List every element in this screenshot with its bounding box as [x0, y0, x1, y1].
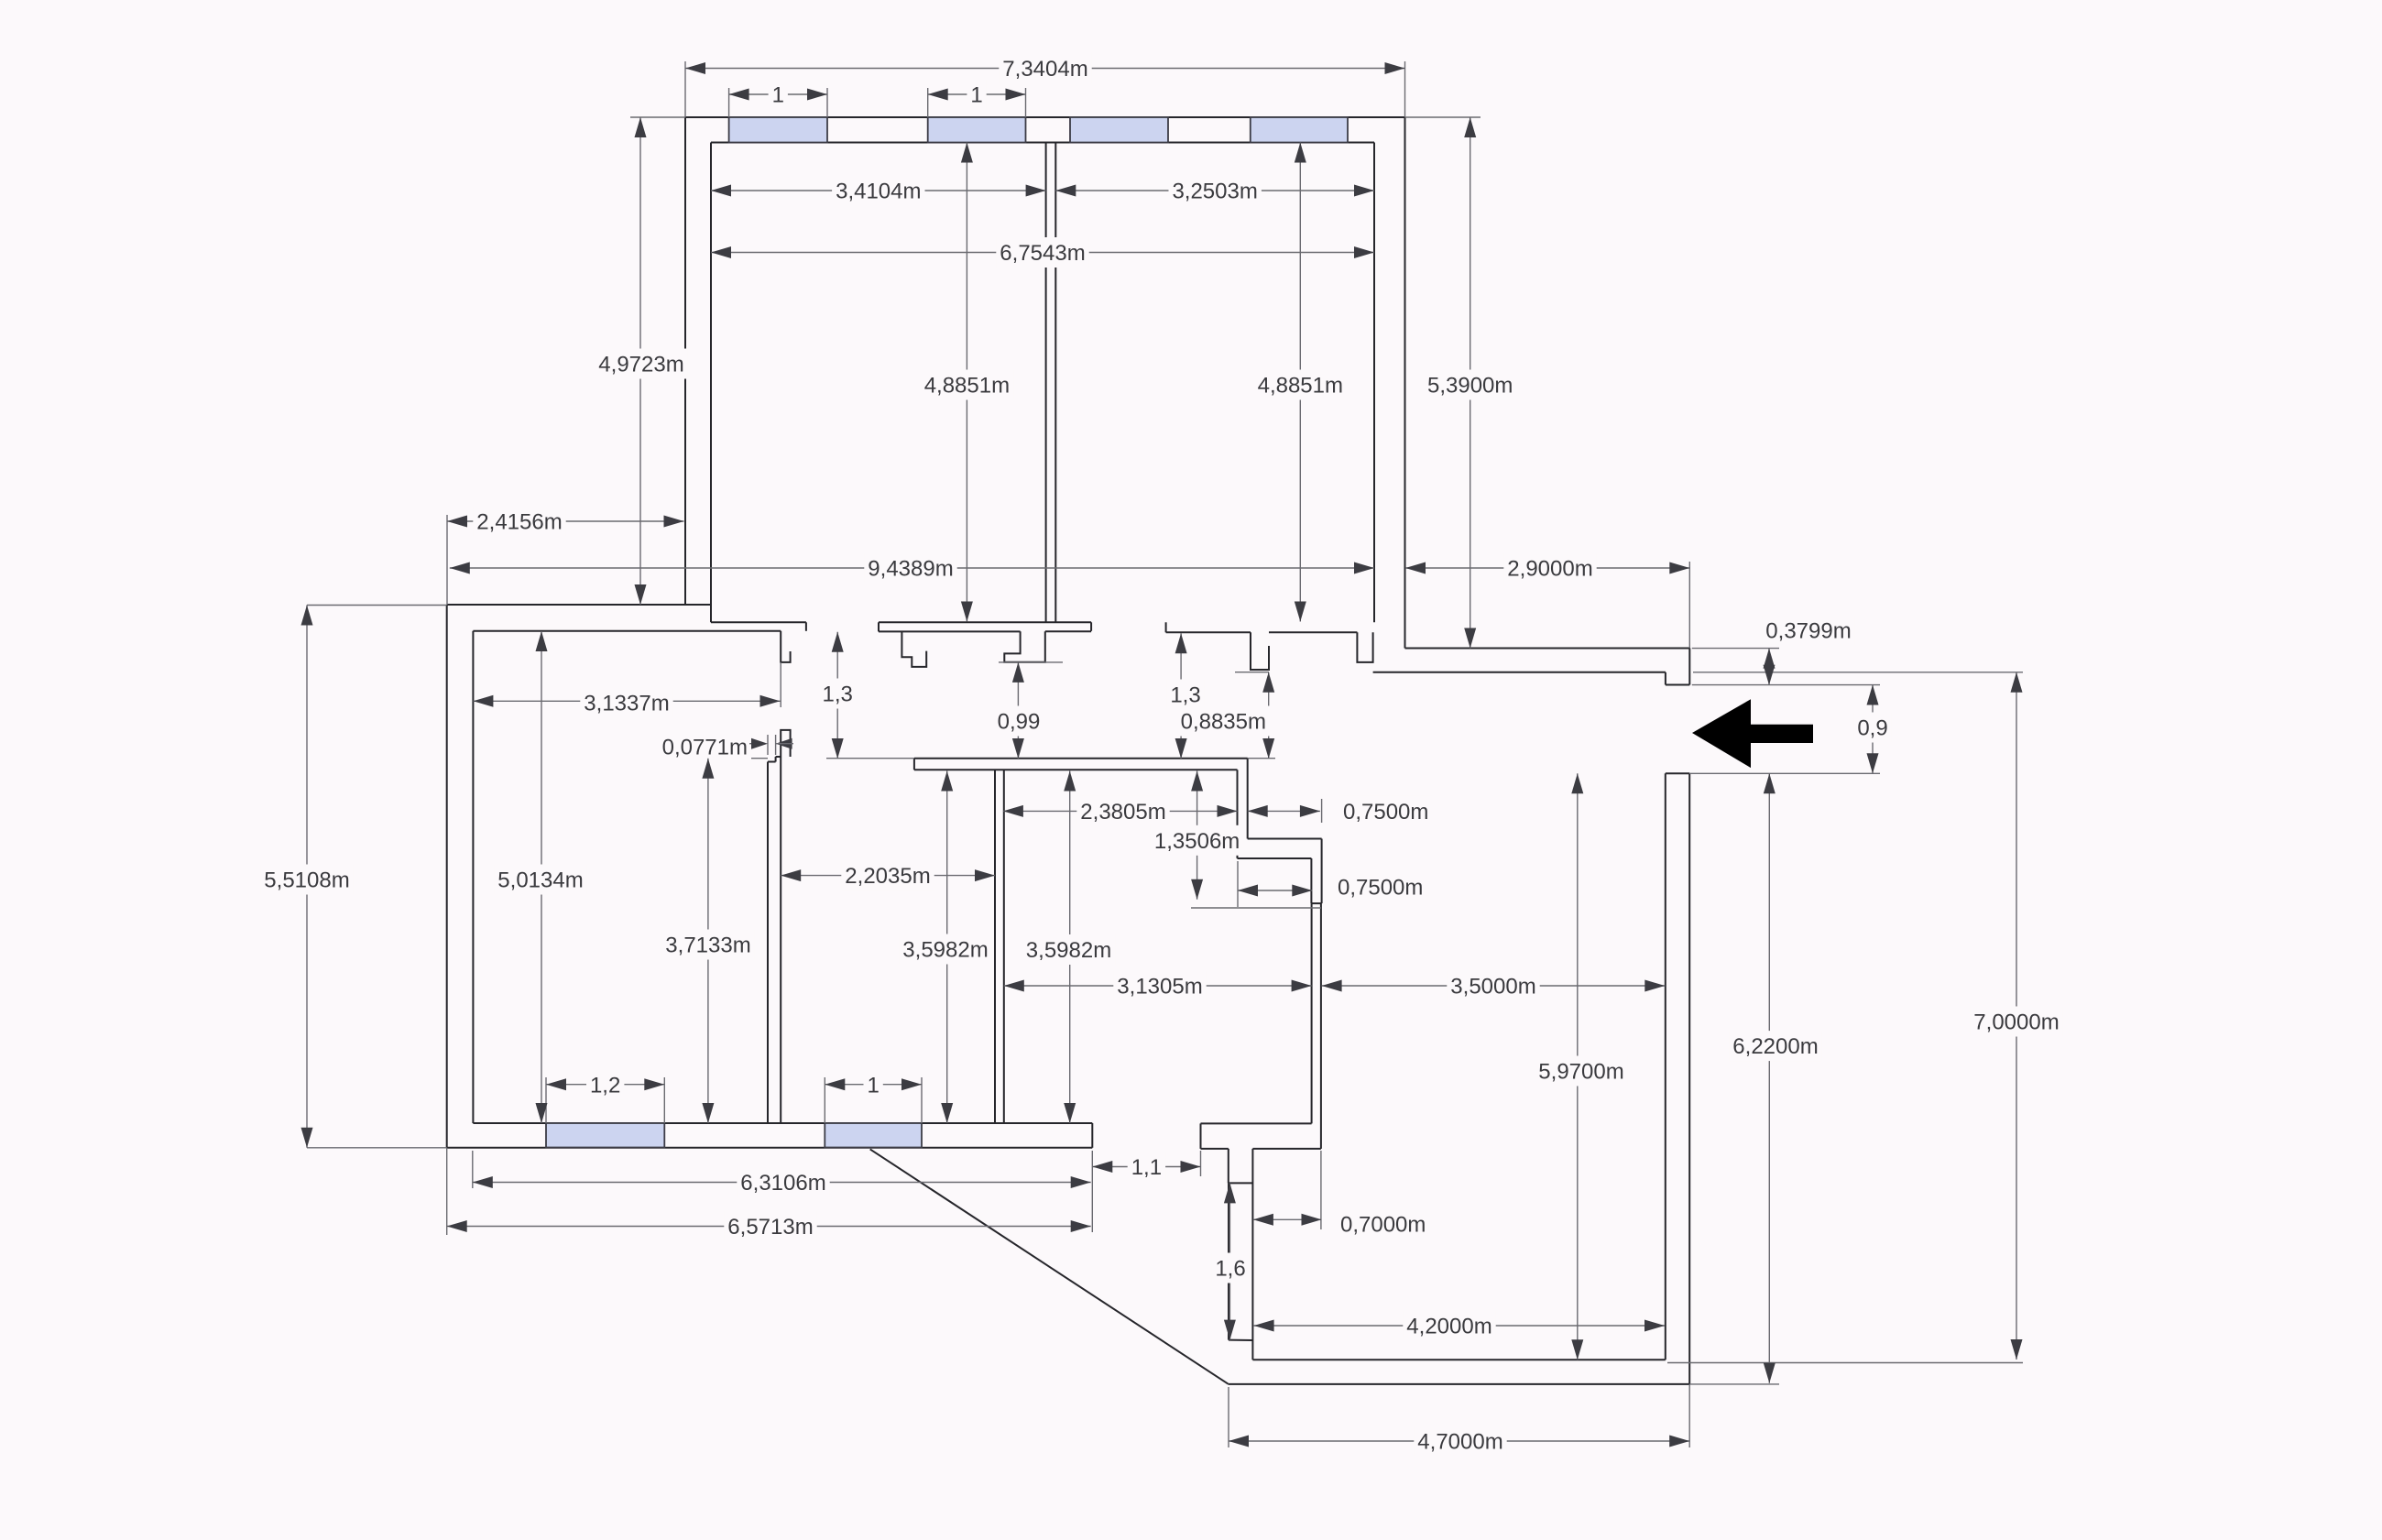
svg-text:1,3: 1,3: [1170, 683, 1200, 708]
svg-text:1,3: 1,3: [823, 683, 853, 707]
svg-text:0,7000m: 0,7000m: [1340, 1213, 1426, 1238]
svg-text:5,0134m: 5,0134m: [497, 868, 583, 893]
svg-text:9,4389m: 9,4389m: [868, 557, 953, 582]
svg-text:2,9000m: 2,9000m: [1507, 557, 1592, 582]
svg-text:0,9: 0,9: [1857, 716, 1887, 741]
svg-text:3,5982m: 3,5982m: [1026, 938, 1111, 963]
svg-text:0,0771m: 0,0771m: [662, 736, 748, 760]
svg-text:7,3404m: 7,3404m: [1002, 57, 1087, 82]
svg-text:1,1: 1,1: [1131, 1155, 1162, 1180]
svg-text:0,8835m: 0,8835m: [1181, 710, 1266, 735]
svg-text:4,8851m: 4,8851m: [1258, 374, 1343, 399]
svg-text:0,3799m: 0,3799m: [1765, 619, 1851, 644]
svg-text:6,2200m: 6,2200m: [1732, 1034, 1818, 1059]
svg-text:3,5982m: 3,5982m: [902, 938, 988, 963]
svg-text:1,2: 1,2: [590, 1073, 620, 1098]
svg-text:2,2035m: 2,2035m: [845, 864, 930, 889]
svg-text:4,8851m: 4,8851m: [924, 374, 1010, 399]
svg-text:3,5000m: 3,5000m: [1450, 975, 1535, 999]
svg-text:0,7500m: 0,7500m: [1343, 800, 1428, 825]
svg-text:1: 1: [970, 83, 982, 108]
svg-text:3,1337m: 3,1337m: [584, 692, 669, 716]
svg-text:6,3106m: 6,3106m: [740, 1171, 825, 1196]
svg-text:2,3805m: 2,3805m: [1080, 800, 1165, 825]
svg-text:5,5108m: 5,5108m: [264, 868, 349, 893]
svg-text:5,9700m: 5,9700m: [1538, 1060, 1623, 1085]
svg-text:1,6: 1,6: [1215, 1257, 1245, 1282]
svg-text:4,2000m: 4,2000m: [1406, 1315, 1491, 1339]
svg-text:3,2503m: 3,2503m: [1172, 180, 1257, 204]
svg-text:3,7133m: 3,7133m: [665, 934, 750, 958]
svg-text:3,4104m: 3,4104m: [836, 180, 921, 204]
svg-text:4,7000m: 4,7000m: [1417, 1430, 1502, 1455]
svg-text:7,0000m: 7,0000m: [1973, 1010, 2059, 1035]
svg-text:1: 1: [867, 1073, 879, 1098]
svg-text:6,7543m: 6,7543m: [1000, 241, 1085, 266]
svg-text:1,3506m: 1,3506m: [1154, 829, 1240, 854]
svg-text:5,3900m: 5,3900m: [1427, 374, 1513, 399]
svg-text:0,99: 0,99: [998, 710, 1041, 735]
svg-text:0,7500m: 0,7500m: [1338, 876, 1423, 901]
svg-text:2,4156m: 2,4156m: [476, 510, 562, 535]
svg-text:6,5713m: 6,5713m: [727, 1215, 813, 1240]
svg-text:1: 1: [772, 83, 784, 108]
svg-text:4,9723m: 4,9723m: [598, 353, 683, 377]
svg-text:3,1305m: 3,1305m: [1117, 975, 1202, 999]
